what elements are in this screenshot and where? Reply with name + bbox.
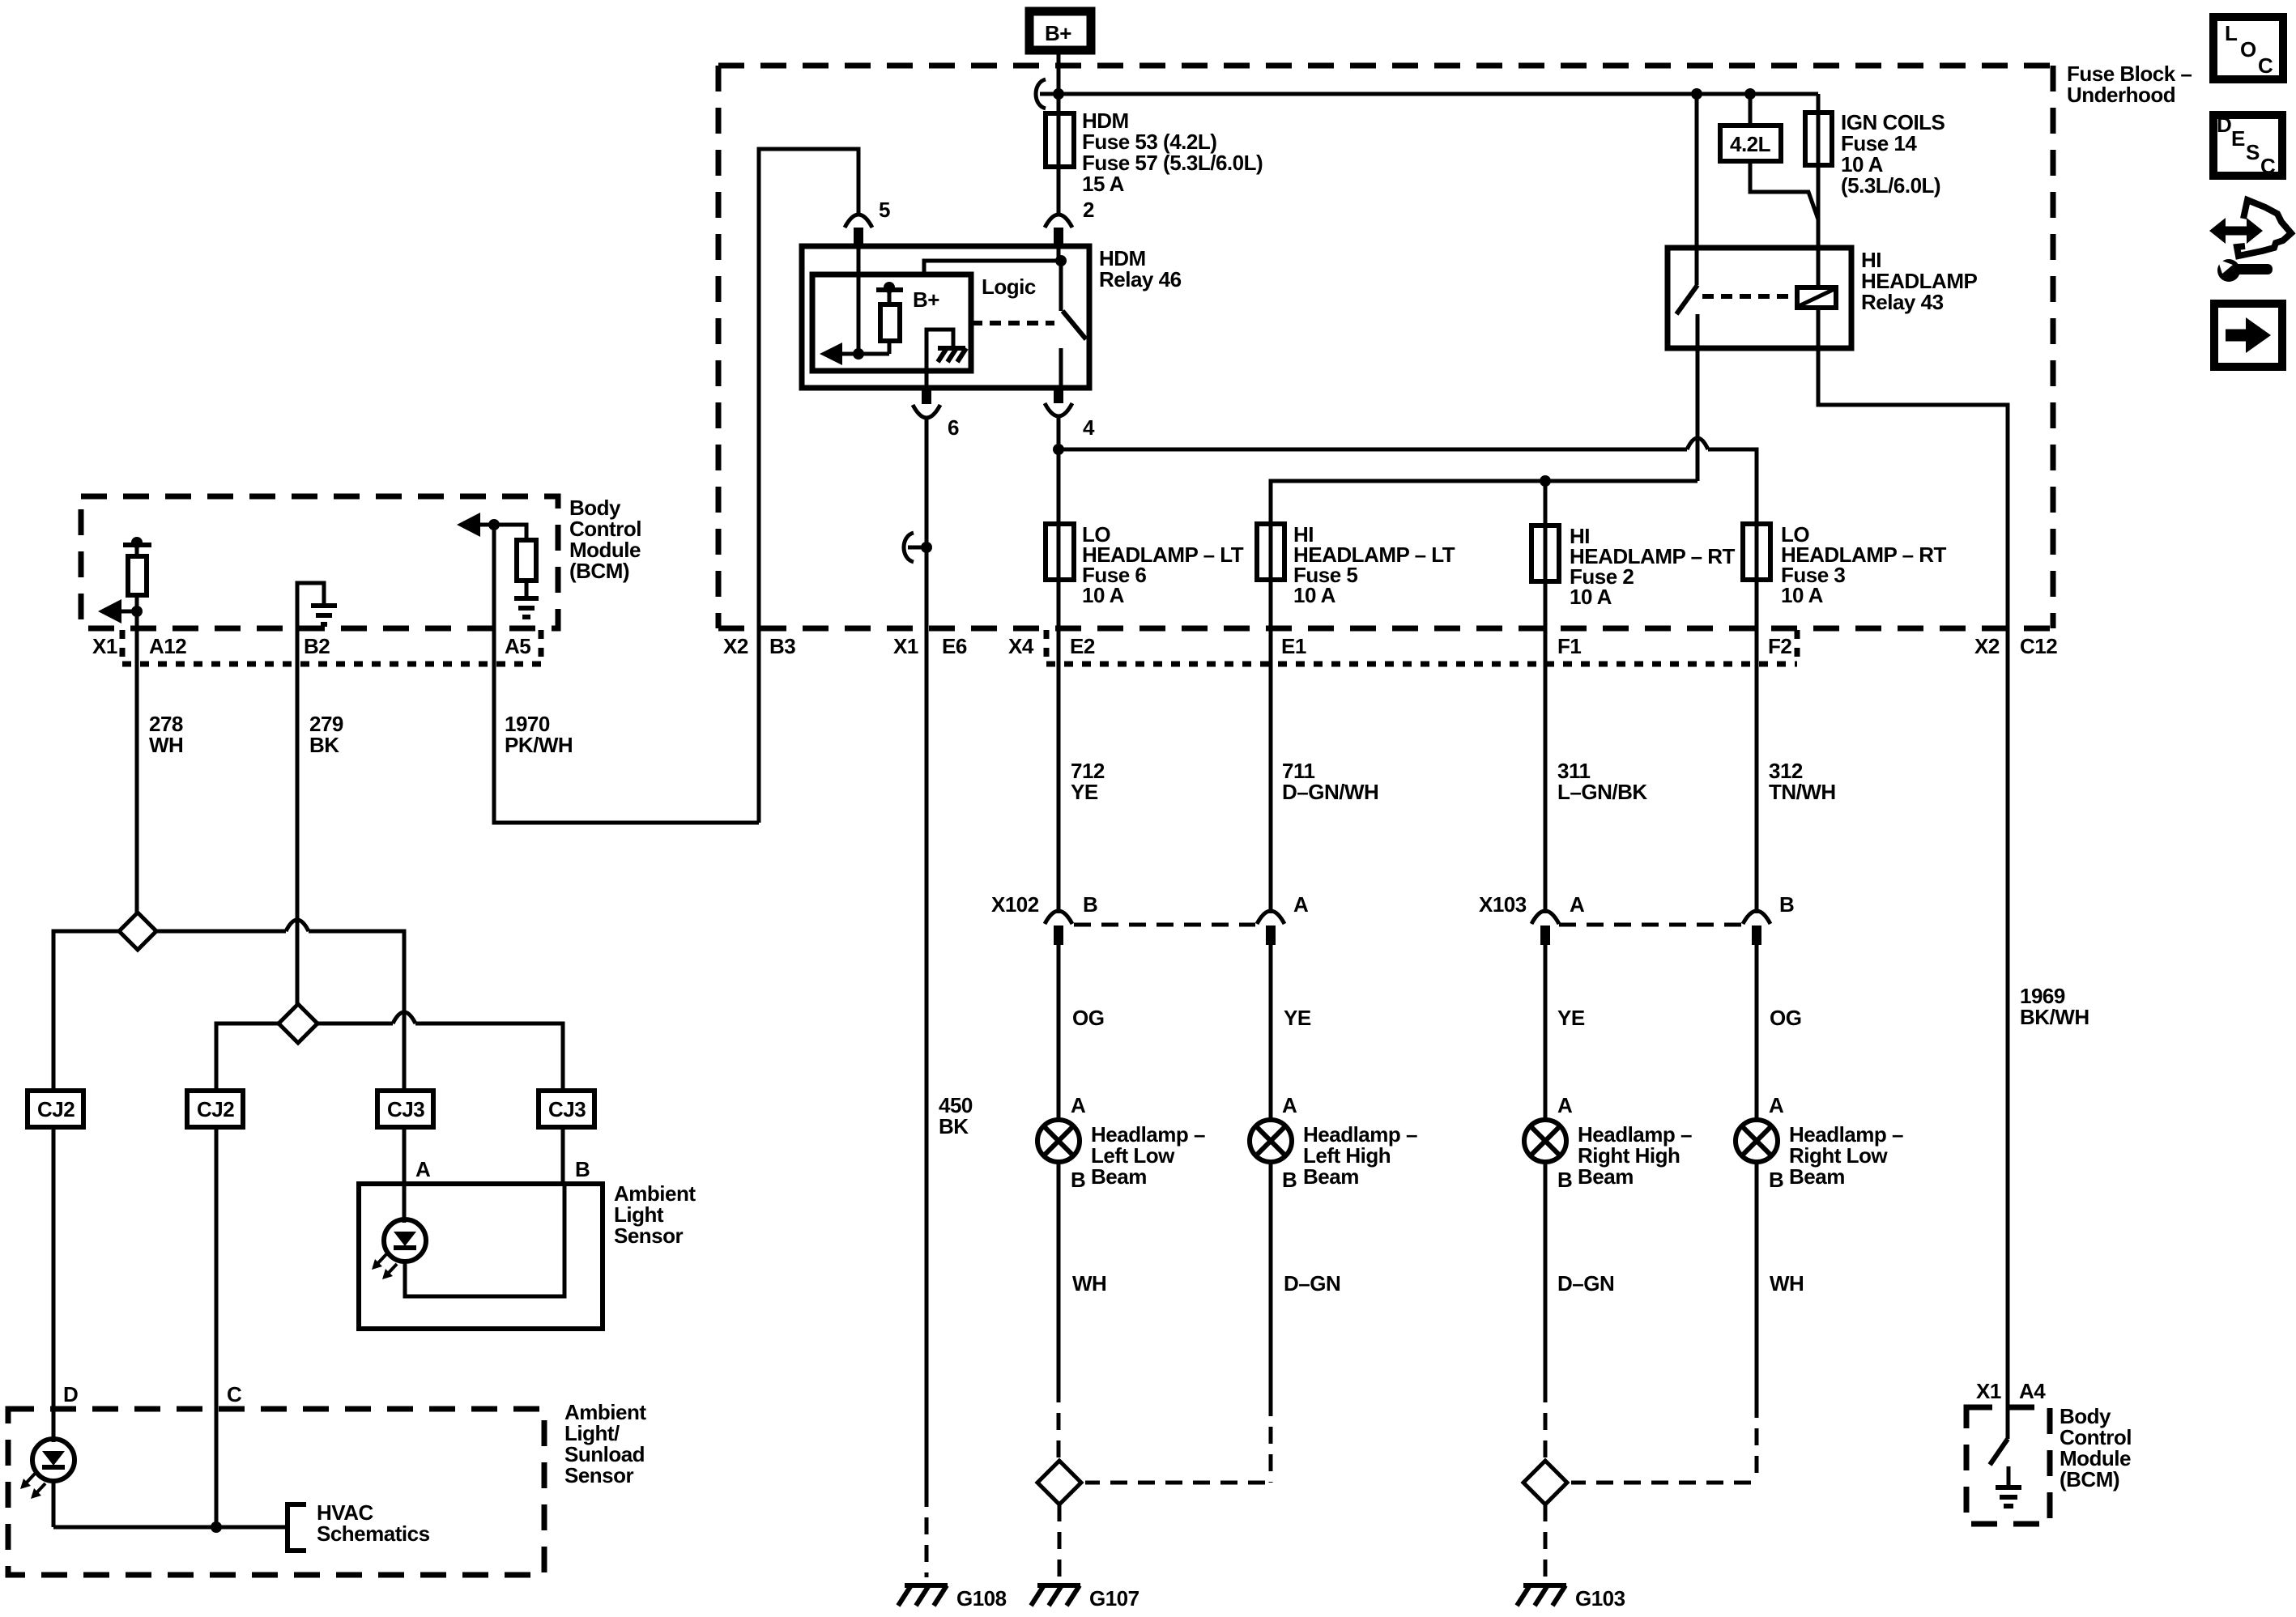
connector X103 pin B — [1743, 911, 1770, 945]
label Body Control Module BCM — [569, 496, 641, 583]
wire relay46 pin6 stub — [925, 371, 929, 403]
wire CJ2 to HVAC — [215, 1127, 219, 1527]
wire right low beam dashed to splice — [1571, 1401, 1757, 1483]
wire relay 43 coil to 1969 riser — [1818, 308, 2008, 1407]
wire low beam bus with hop — [1059, 438, 1757, 524]
icon forward arrow box — [2214, 304, 2282, 367]
svg-text:OG: OG — [1770, 1006, 1801, 1030]
relay 46 pin 5 connector — [845, 215, 872, 246]
splice curl 450 BK — [904, 533, 926, 562]
node splice curl at B+ junction — [1036, 79, 1059, 109]
wire CJ3 to ambient pin B — [561, 1127, 565, 1184]
svg-text:Sensor: Sensor — [614, 1223, 684, 1248]
wire to 4.2L box — [1749, 94, 1753, 126]
svg-text:G107: G107 — [1089, 1586, 1139, 1611]
relay HDM Relay 46 box — [802, 246, 1089, 388]
wire left high lamp return — [1269, 1162, 1273, 1399]
label Fuse 5 — [1293, 522, 1455, 607]
relay 46 pin 2 connector — [1045, 215, 1072, 246]
svg-text:Beam: Beam — [1578, 1164, 1634, 1189]
svg-text:X102: X102 — [991, 892, 1039, 917]
svg-text:B: B — [1282, 1168, 1297, 1192]
svg-text:X4: X4 — [1008, 634, 1034, 658]
svg-text:BK: BK — [939, 1114, 969, 1138]
wire label 1969 BK/WH — [2020, 984, 2089, 1029]
svg-text:WH: WH — [1770, 1271, 1804, 1296]
svg-text:A: A — [1570, 892, 1585, 917]
light arrows sunload sensor — [20, 1474, 45, 1499]
svg-text:D: D — [63, 1382, 78, 1406]
svg-text:Beam: Beam — [1789, 1164, 1845, 1189]
ground G107 — [1031, 1585, 1080, 1606]
relay 46 logic box — [812, 274, 971, 371]
wire pin5 into logic — [857, 246, 861, 354]
svg-text:Relay 46: Relay 46 — [1099, 267, 1182, 291]
svg-text:B: B — [1083, 892, 1097, 917]
svg-text:X2: X2 — [1974, 634, 2000, 658]
svg-text:G108: G108 — [956, 1586, 1007, 1611]
wire CJ2 to sunload diode — [52, 1127, 56, 1442]
fuse LO HEADLAMP LT Fuse 6 — [1046, 524, 1074, 913]
wire E6 450 BK circuit — [925, 418, 929, 1490]
internal B+ tap — [876, 282, 903, 304]
svg-text:B+: B+ — [1045, 21, 1071, 45]
arrow BCM A5 internal — [457, 513, 494, 537]
wire 1970 PK/WH — [494, 525, 759, 823]
svg-text:CJ3: CJ3 — [387, 1097, 424, 1121]
svg-text:B: B — [575, 1157, 590, 1181]
label Headlamp Left Low Beam — [1091, 1122, 1205, 1189]
svg-text:D–GN: D–GN — [1284, 1271, 1340, 1296]
junction dot A5 — [488, 519, 500, 530]
label Headlamp Left High Beam — [1303, 1122, 1417, 1189]
wire left high beam dashed to splice — [1085, 1399, 1271, 1483]
resistor relay 46 coil — [880, 304, 900, 354]
wire B+ bus to right — [1059, 92, 1818, 96]
svg-text:PK/WH: PK/WH — [505, 733, 573, 757]
arrow BCM A12 internal — [98, 599, 137, 623]
label Headlamp Right Low Beam — [1789, 1122, 1903, 1189]
connector X102 pin B — [1045, 911, 1072, 945]
fuse HDM Fuse 53/57 — [1046, 113, 1074, 216]
svg-text:B: B — [1557, 1168, 1572, 1192]
wire relay46 pin4 to fuse bus — [1057, 417, 1061, 524]
svg-text:Underhood: Underhood — [2067, 83, 2175, 107]
wire left low beam to splice dashed — [1057, 1385, 1061, 1460]
wire relay46 pin4 stub — [1057, 388, 1061, 402]
svg-text:10 A: 10 A — [1570, 585, 1612, 609]
svg-text:E2: E2 — [1070, 634, 1095, 658]
svg-text:YE: YE — [1071, 780, 1098, 804]
relay 43 coil — [1797, 287, 1836, 308]
fuse block underhood dashed box — [718, 66, 2053, 628]
connector CJ3 first — [377, 1091, 433, 1127]
ground G103 — [1517, 1585, 1566, 1606]
wire label 711 D-GN/WH — [1282, 759, 1378, 804]
splice diamond 279 — [279, 1004, 317, 1043]
wire label 312 TN/WH — [1769, 759, 1836, 804]
label Fuse 3 — [1781, 522, 1947, 607]
wire left high lamp feed — [1269, 945, 1273, 1120]
connector X102 pin A — [1257, 911, 1284, 945]
wire right high lamp feed — [1544, 945, 1548, 1120]
connector X103 pin A — [1531, 911, 1559, 945]
junction dot 4.2L branch — [1691, 88, 1702, 100]
connector CJ2 first — [28, 1091, 83, 1127]
svg-text:Logic: Logic — [982, 274, 1036, 299]
svg-text:TN/WH: TN/WH — [1769, 780, 1836, 804]
svg-text:E: E — [2231, 126, 2245, 151]
label HDM Relay 46 — [1099, 246, 1182, 291]
svg-text:(BCM): (BCM) — [569, 559, 629, 583]
wire splice 279 right branch with hop — [317, 1012, 563, 1091]
svg-text:B: B — [1769, 1168, 1783, 1192]
wire label 311 L-GN/BK — [1557, 759, 1647, 804]
connector bracket BCM dotted — [122, 630, 541, 664]
svg-text:OG: OG — [1072, 1006, 1104, 1030]
svg-text:A12: A12 — [149, 634, 186, 658]
svg-text:X103: X103 — [1479, 892, 1527, 917]
lamp Headlamp Left High Beam — [1250, 1120, 1292, 1162]
svg-text:YE: YE — [1284, 1006, 1311, 1030]
wire pin2 to logic feed — [924, 246, 1061, 274]
svg-text:B3: B3 — [769, 634, 795, 658]
ground BCM A5 internal — [514, 598, 539, 617]
icon LOC box — [2213, 17, 2283, 79]
wire left low lamp feed — [1057, 945, 1061, 1120]
svg-text:X1: X1 — [1976, 1379, 2001, 1403]
resistor BCM A12 pull-up — [128, 556, 147, 611]
wire X2 B3 riser to relay pin 5 — [759, 149, 858, 823]
wire right low lamp feed — [1755, 945, 1759, 1120]
connector labels X1 A4 — [1976, 1379, 2046, 1403]
label IGN COILS fuse — [1841, 110, 1945, 198]
wire right high beam to splice dashed — [1544, 1385, 1548, 1460]
wire sunload internal bus — [53, 1526, 285, 1530]
junction dot relay 46 switch top — [1055, 255, 1067, 266]
svg-text:YE: YE — [1557, 1006, 1585, 1030]
svg-text:5: 5 — [879, 198, 890, 222]
wire label 712 YE — [1071, 759, 1105, 804]
svg-text:A: A — [1557, 1093, 1573, 1117]
junction dot IGN branch — [1744, 88, 1756, 100]
svg-text:A: A — [1293, 892, 1309, 917]
svg-text:A: A — [1769, 1093, 1784, 1117]
wire left low lamp return — [1057, 1162, 1061, 1385]
photodiode ambient light sensor — [384, 1219, 426, 1262]
wire splice to G107 dashed — [1058, 1504, 1062, 1577]
svg-text:D: D — [2217, 113, 2231, 137]
svg-text:A4: A4 — [2019, 1379, 2046, 1403]
lamp Headlamp Right Low Beam — [1736, 1120, 1778, 1162]
svg-text:BK: BK — [309, 733, 339, 757]
relay HI HEADLAMP Relay 43 box — [1668, 248, 1851, 348]
svg-text:10 A: 10 A — [1293, 583, 1336, 607]
module BCM dashed box — [81, 496, 558, 628]
junction dot high beam bus — [1540, 475, 1551, 487]
junction dot A12 — [131, 606, 143, 617]
ground BCM internal — [1996, 1466, 2021, 1506]
wire relay43 output — [1696, 348, 1700, 481]
dashed connector X103 — [1559, 923, 1742, 927]
svg-text:4: 4 — [1083, 415, 1095, 440]
svg-text:15 A: 15 A — [1082, 172, 1125, 196]
label Ambient Light Sensor — [614, 1181, 696, 1248]
svg-text:Sensor: Sensor — [564, 1463, 634, 1487]
svg-text:WH: WH — [149, 733, 183, 757]
svg-text:O: O — [2240, 37, 2256, 62]
svg-text:B2: B2 — [304, 634, 330, 658]
svg-text:Beam: Beam — [1091, 1164, 1147, 1189]
off-page bracket HVAC — [288, 1504, 306, 1551]
module BCM ground dashed box — [1966, 1407, 2050, 1524]
label HI HEADLAMP Relay 43 — [1861, 248, 1977, 314]
svg-text:X2: X2 — [723, 634, 748, 658]
junction dot splice 450 BK — [921, 542, 932, 553]
label Body Control Module BCM ground — [2060, 1404, 2132, 1491]
wire ambient sensor internal — [405, 1184, 564, 1296]
wire B+ to HDM fuse — [1057, 54, 1061, 113]
svg-text:2: 2 — [1083, 198, 1094, 222]
wire splice 278 left branch — [53, 931, 119, 1091]
wire splice to G103 dashed — [1544, 1504, 1548, 1577]
svg-text:C: C — [227, 1382, 242, 1406]
svg-text:10 A: 10 A — [1781, 583, 1824, 607]
svg-text:F2: F2 — [1768, 634, 1791, 658]
lamp Headlamp Left Low Beam — [1037, 1120, 1080, 1162]
label 278 WH — [149, 712, 183, 757]
resistor BCM A5 pull-up — [494, 525, 536, 596]
wire down to relay 43 switch — [1695, 94, 1699, 285]
svg-text:Schematics: Schematics — [317, 1521, 430, 1546]
label 1970 PK/WH — [505, 712, 573, 757]
junction dot B+ bus — [1053, 88, 1064, 100]
svg-text:BK/WH: BK/WH — [2020, 1005, 2089, 1029]
wire 4.2L box to fuse output — [1750, 161, 1818, 219]
relay 46 pin 4 connector — [1045, 388, 1072, 416]
svg-text:B: B — [1779, 892, 1794, 917]
photodiode sunload sensor — [32, 1439, 75, 1527]
icon DESC box — [2213, 113, 2282, 178]
wire junction to fuse 2 — [1544, 481, 1548, 526]
relay 46 control dashes — [971, 321, 1054, 326]
svg-text:10 A: 10 A — [1082, 583, 1125, 607]
svg-text:X1: X1 — [893, 634, 918, 658]
label Fuse 2 — [1570, 524, 1736, 609]
connector bracket X4 dotted — [1046, 630, 1797, 664]
wire right low lamp return — [1755, 1162, 1759, 1401]
svg-text:A: A — [1071, 1093, 1086, 1117]
wire splice 279 left branch — [216, 1023, 279, 1091]
svg-text:Relay 43: Relay 43 — [1861, 290, 1944, 314]
wire high beam bus — [1271, 481, 1698, 524]
logic internal ground — [926, 330, 966, 371]
svg-text:6: 6 — [948, 415, 959, 440]
wire 450 BK dashed drop — [925, 1490, 929, 1577]
svg-text:S: S — [2246, 140, 2260, 164]
wire 279 BK — [296, 628, 300, 1004]
wire right high lamp return — [1544, 1162, 1548, 1385]
svg-text:L: L — [2225, 21, 2238, 45]
label HDM fuse — [1082, 109, 1263, 196]
module Ambient Light Sunload Sensor dashed box — [8, 1409, 544, 1575]
wire 278 WH — [135, 611, 139, 913]
svg-text:4.2L: 4.2L — [1730, 132, 1771, 156]
wire BCM B2 internal ground — [297, 583, 337, 628]
connector CJ3 second — [539, 1091, 594, 1127]
svg-text:G103: G103 — [1575, 1586, 1625, 1611]
svg-text:X1: X1 — [92, 634, 117, 658]
label Ambient Light Sunload Sensor — [564, 1400, 646, 1487]
wire CJ3 to ambient pin A — [403, 1127, 407, 1223]
splice diamond G107 — [1037, 1461, 1081, 1504]
label Fuse 6 — [1082, 522, 1244, 607]
4.2L engine option box — [1720, 126, 1781, 161]
svg-text:C12: C12 — [2020, 634, 2057, 658]
icon diagnostic wrench — [2209, 200, 2291, 282]
arrow internal drive — [820, 343, 889, 365]
relay 46 pin 6 connector — [913, 388, 940, 418]
splice diamond 278 — [119, 913, 156, 950]
label Headlamp Right High Beam — [1578, 1122, 1692, 1189]
relay 43 switch — [1676, 285, 1698, 348]
svg-text:E6: E6 — [942, 634, 967, 658]
svg-text:F1: F1 — [1557, 634, 1581, 658]
fuse HI HEADLAMP RT Fuse 2 — [1531, 526, 1559, 913]
svg-text:WH: WH — [1072, 1271, 1106, 1296]
fuse IGN COILS Fuse 14 — [1805, 113, 1832, 287]
fuse LO HEADLAMP RT Fuse 3 — [1743, 524, 1770, 913]
svg-text:C: C — [2258, 53, 2273, 78]
wire corner into IGN fuse — [1817, 94, 1821, 113]
svg-text:A: A — [1282, 1093, 1297, 1117]
connector labels fuse block bottom — [723, 634, 2057, 658]
connector CJ2 second — [187, 1091, 243, 1127]
junction dot logic drive — [853, 348, 864, 360]
relay 43 control dashes — [1702, 294, 1797, 299]
svg-text:D–GN/WH: D–GN/WH — [1282, 780, 1378, 804]
wire label 450 BK — [939, 1093, 973, 1138]
fuse HI HEADLAMP LT Fuse 5 — [1257, 524, 1284, 913]
lamp Headlamp Right High Beam — [1524, 1120, 1566, 1162]
splice diamond G103 — [1523, 1461, 1567, 1504]
junction dot sunload C — [211, 1521, 222, 1533]
relay 46 switch — [1061, 261, 1086, 388]
wire splice 278 right branch with hop — [156, 920, 404, 1091]
svg-text:B: B — [1071, 1168, 1085, 1192]
switch BCM internal — [1990, 1407, 2008, 1465]
svg-text:E1: E1 — [1281, 634, 1306, 658]
label 279 BK — [309, 712, 343, 757]
svg-text:D–GN: D–GN — [1557, 1271, 1614, 1296]
svg-text:CJ2: CJ2 — [197, 1097, 234, 1121]
svg-text:CJ3: CJ3 — [548, 1097, 586, 1121]
svg-text:C: C — [2260, 154, 2276, 178]
svg-text:(5.3L/6.0L): (5.3L/6.0L) — [1841, 173, 1940, 198]
label HVAC Schematics — [317, 1500, 430, 1546]
svg-text:CJ2: CJ2 — [37, 1097, 75, 1121]
battery feed B+ box — [1029, 11, 1091, 50]
junction dot pin4 bus — [1053, 444, 1064, 455]
ground G108 — [898, 1585, 948, 1606]
dashed connector X102 — [1074, 923, 1255, 927]
svg-text:Beam: Beam — [1303, 1164, 1359, 1189]
svg-text:A: A — [415, 1157, 431, 1181]
light arrows ambient sensor — [372, 1254, 397, 1279]
connector labels BCM bottom — [92, 634, 530, 658]
fuse block label — [2067, 62, 2192, 107]
module Ambient Light Sensor box — [359, 1184, 603, 1329]
svg-text:L–GN/BK: L–GN/BK — [1557, 780, 1647, 804]
svg-text:(BCM): (BCM) — [2060, 1467, 2119, 1491]
internal supply tap A12 — [123, 537, 151, 556]
svg-text:B+: B+ — [913, 287, 939, 312]
svg-text:A5: A5 — [505, 634, 530, 658]
